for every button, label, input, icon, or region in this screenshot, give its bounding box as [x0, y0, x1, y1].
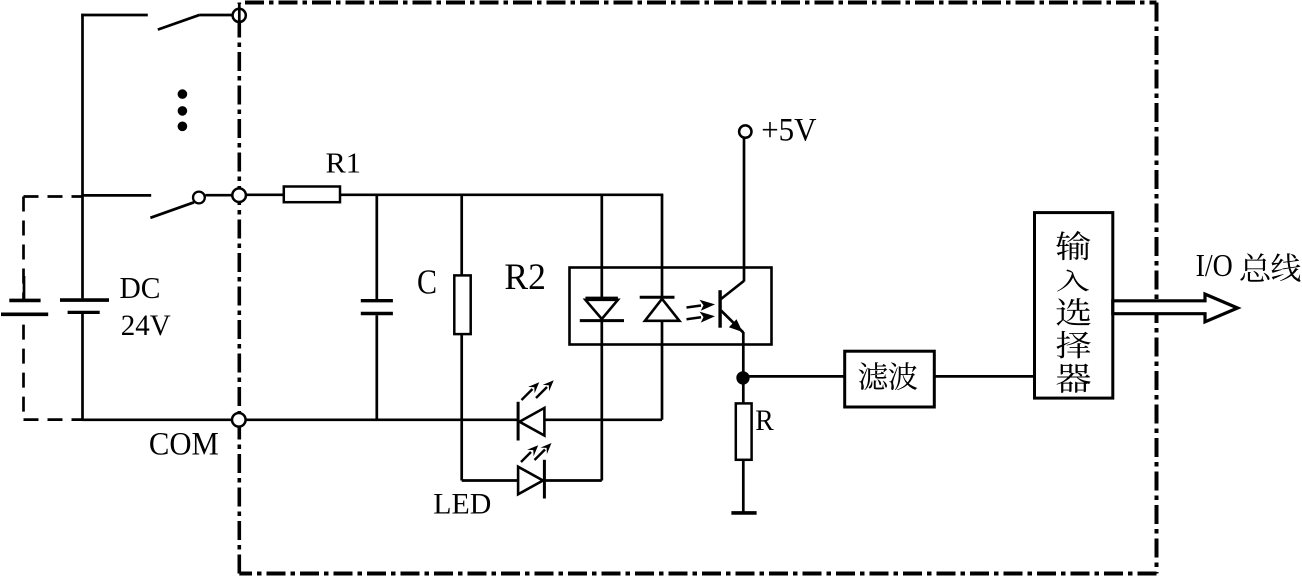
capacitor C branch wire upper [375, 195, 378, 299]
opto diode D2 cathode bar [640, 296, 675, 299]
opto diode D1 anode bar [585, 297, 618, 300]
opto diode D1 wire lower (down to LED row 2) [600, 321, 603, 481]
opto diode D2 triangle (pointing up) [645, 299, 680, 321]
COM row wire to LED1 [246, 418, 518, 421]
phantom channel dashed box: bottom edge [24, 418, 83, 421]
optocoupler package box U1 [570, 268, 772, 345]
wire: input row 2 from rail to switch 2 [83, 194, 152, 197]
dots of repetition between channels [178, 89, 188, 131]
LED1 emission arrow b [536, 380, 554, 398]
phototransistor Q1 base bar [718, 290, 721, 328]
capacitor C top plate [361, 299, 393, 302]
svg-text:I/O: I/O [1196, 248, 1233, 283]
svg-text:C: C [417, 263, 437, 302]
capacitor C branch wire lower [375, 315, 378, 420]
phantom channel dashed box: top edge [24, 195, 83, 198]
wire: top row from rail to switch 1 [81, 14, 148, 17]
opto input diode D1 wire upper [600, 195, 603, 298]
wire: R to ground [742, 460, 745, 512]
resistor R2 body [454, 275, 470, 334]
svg-text:LED: LED [433, 489, 491, 521]
phantom channel dashed box: left edge upper [22, 197, 25, 300]
PLC module boundary (dash-dot frame) [239, 3, 1156, 574]
terminal 2 circle (input point, row 2) [232, 188, 246, 202]
svg-text:+5V: +5V [761, 113, 817, 149]
svg-text:24V: 24V [121, 310, 171, 342]
label char 器 [1057, 364, 1091, 393]
battery cell B1: long bottom plate [1, 312, 48, 316]
wire: node to filter box [743, 375, 845, 378]
COM row wire from LED1 to D2 branch [544, 418, 662, 421]
terminal 3 circle (COM) [232, 413, 246, 427]
switch S1 blade [158, 15, 200, 30]
opto diode D2 wire upper [661, 195, 664, 297]
wire: switch 2 to terminal 2 [205, 194, 232, 197]
label char 入 [1057, 270, 1089, 292]
svg-text:R2: R2 [504, 257, 546, 298]
label char 择 [1057, 331, 1091, 358]
resistor R2 branch wire upper [460, 195, 463, 276]
filter block box [845, 351, 935, 407]
node junction dot [736, 371, 749, 384]
label char 波 [889, 362, 918, 390]
svg-text:COM: COM [149, 427, 219, 463]
label char 总 [1240, 253, 1269, 282]
input selector block box [1035, 213, 1113, 399]
phototransistor Q1 emitter stroke [721, 311, 743, 333]
LED row 2 wire left [462, 479, 518, 482]
wire: emitter down to node [742, 332, 745, 403]
LED2 cathode bar [543, 460, 546, 499]
LED1 emission arrow a [522, 382, 540, 400]
wire: switch 1 to terminal 1 [200, 14, 232, 17]
opto diode D1 triangle (pointing down) [585, 300, 618, 319]
capacitor C bottom plate [361, 312, 393, 315]
resistor R body [736, 403, 752, 459]
LED1 triangle (pointing left) [520, 408, 545, 436]
LED2 emission arrow b [535, 443, 552, 460]
wire: R1 to optocoupler input top rail [340, 193, 663, 196]
terminal 1 circle (input point, top) [233, 9, 246, 22]
LED1 cathode bar [517, 402, 520, 441]
dash-dot stroke through terminal 1 [238, 4, 241, 27]
LED row 2 wire right [544, 479, 601, 482]
svg-text:R: R [755, 404, 774, 437]
battery cell B2: short bottom plate [68, 311, 100, 314]
switch S2 open contact circle [193, 192, 205, 204]
left power rail [81, 14, 84, 299]
wire: filter to input selector [934, 375, 1034, 378]
battery cell B1 top stub [23, 276, 26, 299]
label char 线 [1271, 253, 1300, 281]
label char 输 [1056, 231, 1090, 260]
light coupling arrow 2 [687, 312, 716, 323]
resistor R2 branch wire lower (down to LED row) [460, 334, 463, 480]
label char 滤 [859, 362, 888, 390]
battery cell B1 (phantom, on dashed edge): short top plate [9, 299, 40, 303]
opto diode D1 cathode bar [580, 319, 624, 322]
phantom channel dashed box: left edge lower [22, 316, 25, 420]
switch S2 blade [150, 202, 194, 218]
light coupling arrow 1 [687, 300, 716, 311]
battery cell B2 (DC 24V source): long top plate [60, 298, 109, 302]
opto diode D2 wire lower (down to COM row) [661, 321, 664, 420]
wire: terminal 2 to R1 [246, 193, 284, 196]
svg-text:R1: R1 [326, 148, 362, 180]
resistor R1 body [284, 187, 340, 203]
phototransistor Q1 collector stroke [721, 281, 744, 299]
COM line from rail to terminal 3 [83, 418, 233, 421]
ground bar [731, 511, 756, 515]
LED2 triangle (pointing right) [518, 467, 543, 495]
phototransistor Q1 emitter arrowhead [729, 319, 743, 332]
wire: +5V to collector [743, 139, 746, 282]
label char 选 [1056, 298, 1090, 326]
svg-text:DC: DC [120, 270, 161, 305]
LED2 emission arrow a [521, 445, 538, 462]
I/O bus hollow arrow [1113, 294, 1238, 322]
+5V supply terminal circle [739, 125, 751, 137]
